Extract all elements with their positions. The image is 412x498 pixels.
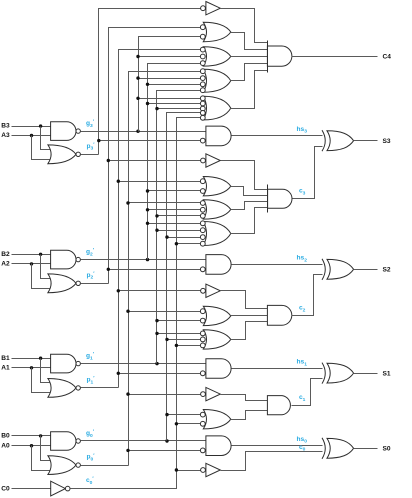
- c1-OR2 input bubbles: [200, 412, 205, 417]
- wire g1' to C4 OR5: [157, 108, 201, 110]
- OR gate C4-OR3: [203, 47, 231, 66]
- XOR gate S0: [322, 438, 325, 459]
- node g1'/c3 OR3: [155, 214, 158, 217]
- wire p3' vertical track: [99, 9, 201, 155]
- XOR gate S2: [322, 259, 325, 280]
- wire c2 to XOR S2: [292, 275, 323, 316]
- node g0'/c2 OR3: [165, 338, 168, 341]
- wire g3' vertical track: [139, 37, 201, 132]
- node g0'/c1 OR2: [165, 413, 168, 416]
- wire p0' output: [81, 465, 129, 467]
- wire c1 to XOR S1: [292, 379, 323, 406]
- svg-text:A2: A2: [1, 261, 10, 268]
- wire hs3 to XOR S3: [232, 135, 323, 137]
- NOR gate p0 (p0&#8242;): [48, 456, 76, 475]
- node c0'/c1 OR2: [175, 422, 178, 425]
- wire p0' to c3 OR3: [129, 202, 201, 204]
- wire g2' output: [81, 259, 206, 261]
- node B3 junction: [39, 124, 42, 127]
- node g2'/c3 OR2: [146, 189, 149, 192]
- wire p1' vertical track: [119, 50, 201, 388]
- wire g2' vertical track: [148, 64, 201, 260]
- wire A1: [12, 367, 51, 369]
- wire B1 to NOR: [41, 359, 52, 383]
- c3-OR3 input bubbles: [200, 201, 205, 206]
- wire p2' to hs2: [109, 269, 201, 271]
- wire c1-OR2 to AND2: [231, 411, 268, 420]
- node g2'/c3 OR4: [146, 222, 149, 225]
- node B1 junction: [39, 357, 42, 360]
- AND gate U-c1 (2-input): [267, 396, 290, 415]
- node g0'/c3 OR4: [165, 235, 168, 238]
- hs2 p-input bubble: [200, 267, 205, 272]
- wire C4-OR2 to AND5: [231, 33, 268, 50]
- node A0 junction: [30, 444, 33, 447]
- wire p0' to hs0: [129, 450, 201, 452]
- node p1'/c3or2: [117, 180, 120, 183]
- wire A1 to NOR: [32, 368, 51, 393]
- wire p2' to c3 inverter: [109, 160, 201, 162]
- node p2'/hs2: [107, 268, 110, 271]
- OR gate c3-OR2: [203, 177, 231, 196]
- wire A0: [12, 445, 51, 447]
- wire B3: [12, 126, 51, 128]
- wire inv-p0 to AND2: [221, 395, 268, 401]
- node p3'/hs3: [97, 139, 100, 142]
- node B0 junction: [39, 434, 42, 437]
- wire B2 to NOR: [41, 255, 52, 279]
- AND gate hs2: [206, 255, 231, 275]
- wire g2' to C4 OR5: [148, 103, 201, 105]
- node g0' branch: [165, 439, 168, 442]
- wire g0' to c2 OR3: [167, 339, 201, 341]
- wire c0' to c2 OR3: [177, 345, 201, 347]
- node g3'/or4: [136, 76, 139, 79]
- C4-OR4 input bubbles: [200, 69, 205, 74]
- node g2'/C4 OR5: [146, 102, 149, 105]
- wire inv-p3 to AND5: [221, 9, 268, 43]
- node g2'/C4 OR4: [146, 83, 149, 86]
- wire p3' output: [81, 154, 99, 156]
- svg-text:A3: A3: [1, 132, 10, 139]
- node A2 junction: [30, 262, 33, 265]
- wire C4-OR4 to AND5: [231, 64, 268, 81]
- node g3'/or5: [136, 97, 139, 100]
- OR gate c2-OR3: [203, 330, 231, 349]
- wire p2' vertical track: [109, 28, 201, 284]
- node B2 junction: [39, 253, 42, 256]
- wire C4-OR3 to AND5: [231, 56, 268, 58]
- wire g1' to c3 OR4: [157, 230, 201, 232]
- svg-text:S0: S0: [383, 446, 391, 453]
- wire C0: [12, 488, 51, 490]
- wire c0' output: [71, 118, 201, 489]
- svg-text:C0: C0: [1, 485, 10, 492]
- C4-OR5 input bubbles: [200, 96, 205, 101]
- C4-OR3 input bubbles: [200, 47, 205, 52]
- XOR gate S1: [322, 363, 325, 384]
- OR gate C4-OR4: [203, 69, 231, 92]
- wire A3: [12, 135, 51, 137]
- wire c0' to c3 OR4: [177, 243, 201, 245]
- wire B1: [12, 358, 51, 360]
- wire c3-OR3 to AND4: [231, 202, 268, 210]
- wire g3' output: [81, 131, 206, 133]
- wire c3 to XOR S3: [293, 147, 323, 199]
- XOR gate S3: [322, 130, 325, 151]
- wire c3-OR2 to AND4: [231, 187, 268, 196]
- AND gate U-C4 (5-input): [267, 46, 291, 66]
- node g3' branch: [136, 130, 139, 133]
- wire A3 to NOR: [32, 136, 51, 160]
- NAND gate g3 (g3&#8242;): [51, 122, 76, 141]
- wire p1' to c2 inverter: [119, 290, 201, 292]
- AND gate hs1: [206, 359, 231, 379]
- node p0'/hs0: [126, 449, 129, 452]
- wire B0: [12, 435, 51, 437]
- inverter c0' (U-inv-c0): [51, 481, 66, 496]
- inverter U-inv-c0 (S0 carry): [206, 463, 220, 476]
- node g2'/c3 OR3: [146, 208, 149, 211]
- wire p0' to c2 OR2: [129, 311, 201, 313]
- wire S1 output: [354, 373, 378, 375]
- NOR gate p3 (p3&#8242;): [48, 145, 76, 164]
- inverter U-inv-p0 (c1 group): [206, 387, 220, 400]
- c3-OR2 input bubbles: [200, 179, 205, 184]
- C4-OR2 input bubbles: [200, 25, 205, 30]
- NOR gate p2 (p2&#8242;): [48, 274, 76, 293]
- node p0'/c1inv: [126, 392, 129, 395]
- wire g0' output: [81, 440, 206, 442]
- svg-text:B0: B0: [1, 433, 10, 440]
- inverter U-inv-p1 (c2 group): [206, 284, 220, 297]
- NOR p1 output bubble: [76, 386, 80, 390]
- OR gate c3-OR3: [203, 200, 231, 219]
- wire p1' to hs1: [119, 373, 201, 375]
- node g3'/or3: [136, 55, 139, 58]
- inverter U-inv-p3 (C4 group): [206, 2, 220, 15]
- wire B0 to NOR: [41, 436, 52, 461]
- wire C4-OR5 to AND5: [231, 71, 268, 109]
- node p2'/c3inv: [107, 159, 110, 162]
- svg-text:B3: B3: [1, 123, 10, 130]
- NAND gate g1 (g1&#8242;): [51, 354, 76, 373]
- NOR gate p1 (p1&#8242;): [48, 379, 76, 398]
- wire p2' output: [81, 283, 109, 285]
- OR gate C4-OR5: [203, 96, 231, 120]
- wire hs1 to XOR S1: [232, 368, 323, 370]
- wire g1' output: [81, 363, 206, 365]
- hs3 p-input bubble: [200, 138, 205, 143]
- wire p1' to c3 OR2: [119, 181, 201, 183]
- wire S2 output: [354, 269, 378, 271]
- wire g2' to c3 OR3: [148, 209, 201, 211]
- node p1'/hs1: [117, 372, 120, 375]
- NOR p2 output bubble: [76, 281, 80, 285]
- OR gate c2-OR2: [203, 306, 231, 325]
- wire B2: [12, 254, 51, 256]
- hs1 p-input bubble: [200, 371, 205, 376]
- wire g1' to c2 OR3: [157, 333, 201, 335]
- node p0'/c3or3: [126, 201, 129, 204]
- wire B3 to NOR: [41, 127, 52, 150]
- wire S3 output: [354, 140, 378, 142]
- node g1'/c2 OR2: [155, 319, 158, 322]
- wire g1' vertical track: [157, 91, 201, 364]
- NOR p3 output bubble: [76, 152, 80, 156]
- AND gate hs0: [206, 436, 231, 456]
- wire c3-OR4 to AND4: [231, 208, 268, 234]
- svg-text:B2: B2: [1, 251, 10, 258]
- wire c0' to c1 OR2: [177, 423, 201, 425]
- wire A2: [12, 263, 51, 265]
- c3-OR4 input bubbles: [200, 221, 205, 226]
- wire p1' output: [81, 387, 119, 389]
- wire g1' to c2 OR2: [157, 320, 201, 322]
- wire g1' to c3 OR3: [157, 215, 201, 217]
- svg-text:A1: A1: [1, 364, 10, 371]
- svg-text:S1: S1: [383, 370, 391, 377]
- wire p3' to hs3: [99, 140, 201, 142]
- wire g0' to c1 OR2: [167, 414, 201, 416]
- node g2' branch: [146, 258, 149, 261]
- NOR p0 output bubble: [76, 463, 80, 467]
- wire g3' to C4 OR5: [139, 98, 201, 100]
- AND gate hs3: [206, 126, 231, 146]
- wire g3' to C4 OR4: [139, 78, 201, 80]
- wire g0' vertical track: [167, 113, 201, 441]
- svg-text:A0: A0: [1, 442, 10, 449]
- OR gate C4-OR2: [203, 22, 231, 41]
- AND gate U-c3 (4-input): [268, 189, 292, 208]
- NAND gate g0 (g0&#8242;): [51, 432, 76, 451]
- wire c2-OR2 to AND3: [231, 315, 268, 317]
- AND gate U-c2 (3-input): [267, 305, 291, 325]
- node A1 junction: [30, 366, 33, 369]
- wire p0' vertical track: [129, 72, 201, 466]
- svg-text:S3: S3: [383, 138, 391, 145]
- c2-OR2 input bubbles: [200, 309, 205, 314]
- wire g2' to c3 OR4: [148, 223, 201, 225]
- wire C4 output: [292, 56, 378, 58]
- svg-text:B1: B1: [1, 355, 10, 362]
- wire g2' to c3 OR2: [148, 190, 201, 192]
- wire inv-p1 to AND3: [221, 291, 268, 309]
- OR gate c3-OR4: [203, 222, 231, 246]
- node g1'/c3 OR4: [155, 229, 158, 232]
- node g1' branch: [155, 362, 158, 365]
- node p0'/c2or2: [126, 310, 129, 313]
- wire c2-OR3 to AND3: [231, 322, 268, 340]
- wire p0' to c1 inverter: [129, 394, 201, 396]
- wire S0 output: [354, 448, 378, 450]
- wire g3' to C4 OR3: [139, 56, 201, 58]
- c2-OR3 input bubbles: [200, 331, 205, 336]
- wire hs0 to XOR S0: [232, 445, 323, 447]
- svg-text:S2: S2: [383, 267, 391, 274]
- node c0'/S0 inverter: [175, 468, 178, 471]
- wire C0 to XOR S0: [221, 452, 323, 471]
- node p1'/c2inv: [117, 289, 120, 292]
- inverter U-inv-p2 (c3 group): [206, 154, 220, 167]
- svg-text:C4: C4: [383, 54, 392, 61]
- wire hs2 to XOR S2: [232, 264, 323, 266]
- wire g2' to C4 OR4: [148, 84, 201, 86]
- wire g0' to c3 OR4: [167, 237, 201, 239]
- node g1'/c2 OR3: [155, 332, 158, 335]
- OR gate c1-OR2: [203, 410, 231, 429]
- node c0'/c2 OR3: [175, 344, 178, 347]
- node c0'/c3 OR4: [175, 242, 178, 245]
- wire A0 to NOR: [32, 446, 51, 471]
- node A3 junction: [30, 134, 33, 137]
- hs0 p-input bubble: [200, 448, 205, 453]
- wire c0' to S0 inverter: [177, 470, 201, 472]
- NAND gate g2 (g2&#8242;): [51, 250, 76, 269]
- node g1'/C4 OR5: [155, 107, 158, 110]
- wire inv-p2 to AND4: [221, 161, 268, 190]
- wire A2 to NOR: [32, 264, 51, 289]
